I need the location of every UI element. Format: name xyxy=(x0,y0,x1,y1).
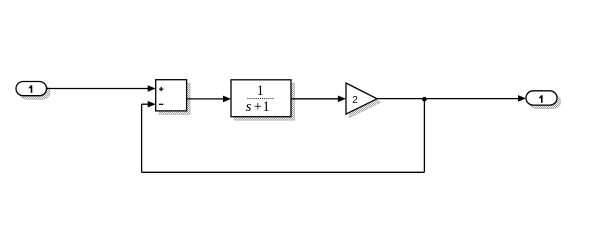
feedback wire bottom horizontal xyxy=(142,171,425,173)
sum plus sign xyxy=(159,87,163,91)
arrowhead into gain xyxy=(338,96,346,103)
wire inport to sum xyxy=(47,88,149,90)
arrowhead into outport xyxy=(518,95,526,102)
svg-text:1: 1 xyxy=(262,99,269,115)
gain block triangle xyxy=(346,83,377,114)
outport block shadow xyxy=(530,94,561,108)
arrowhead into sum minus input xyxy=(148,101,156,108)
sum block shadow xyxy=(159,83,190,114)
outport label 1 xyxy=(539,95,543,103)
svg-text:+: + xyxy=(254,99,262,115)
svg-text:s: s xyxy=(246,99,252,115)
sum minus sign xyxy=(159,103,163,105)
junction dot xyxy=(422,97,427,102)
transfer fcn block xyxy=(231,80,291,117)
sum block xyxy=(156,80,187,111)
fraction bar xyxy=(247,98,274,100)
outport block 1 xyxy=(526,91,557,105)
arrowhead into transfer fcn xyxy=(223,96,231,103)
svg-text:2: 2 xyxy=(352,95,358,106)
inport label 1 xyxy=(29,85,33,93)
transfer fcn block shadow xyxy=(235,83,295,120)
arrowhead into sum plus input xyxy=(148,85,156,92)
inport block 1 xyxy=(16,82,47,96)
feedback wire down from junction xyxy=(423,99,425,172)
svg-text:1: 1 xyxy=(257,83,264,99)
gain block shadow xyxy=(350,87,381,118)
feedback wire into sum minus input xyxy=(142,103,149,105)
inport block shadow xyxy=(20,85,51,99)
wire transfer fcn to gain xyxy=(291,98,338,100)
wire gain to outport xyxy=(377,98,519,100)
wire sum to transfer fcn xyxy=(187,98,224,100)
feedback wire left vertical up xyxy=(141,104,143,172)
